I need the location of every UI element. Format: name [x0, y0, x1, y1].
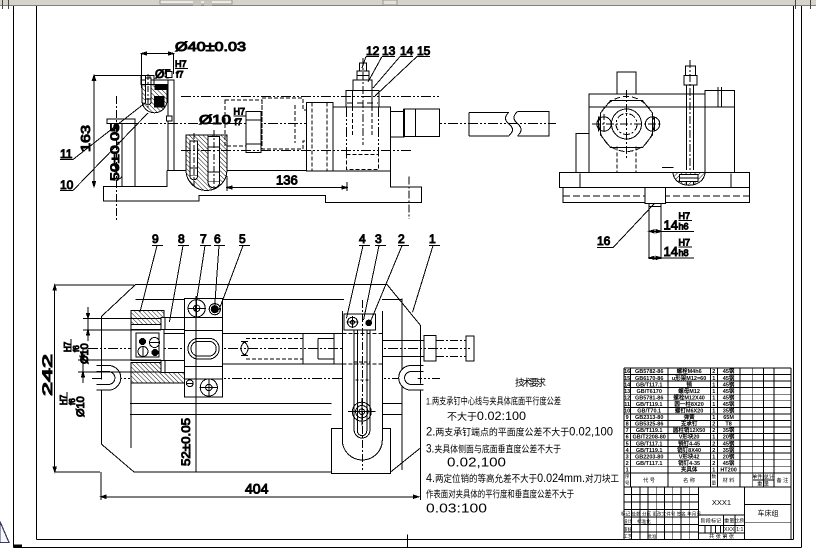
svg-text:工艺: 工艺 [623, 534, 633, 539]
svg-text:销: 销 [686, 380, 692, 388]
svg-text:重量: 重量 [724, 517, 734, 525]
svg-text:1: 1 [712, 435, 715, 441]
svg-text:GB/T117.1: GB/T117.1 [636, 461, 663, 467]
svg-text:2: 2 [712, 448, 715, 454]
svg-text:45钢: 45钢 [723, 387, 735, 395]
svg-text:V形块42: V形块42 [679, 452, 700, 460]
svg-text:14: 14 [624, 382, 631, 388]
svg-text:阶段标记: 阶段标记 [701, 517, 722, 525]
svg-text:12: 12 [624, 395, 630, 401]
svg-text:45钢: 45钢 [723, 459, 735, 467]
svg-text:1: 1 [712, 376, 715, 382]
svg-text:2: 2 [712, 441, 715, 447]
svg-text:2: 2 [398, 232, 405, 246]
svg-text:1: 1 [712, 395, 715, 401]
svg-text:1: 1 [429, 232, 436, 246]
svg-text:支承钉: 支承钉 [680, 420, 698, 428]
svg-text:GB6170-86: GB6170-86 [635, 376, 663, 382]
svg-text:销钉4-35: 销钉4-35 [678, 459, 700, 467]
svg-text:9: 9 [152, 232, 159, 246]
svg-text:136: 136 [276, 173, 298, 188]
svg-text:8: 8 [178, 232, 185, 246]
svg-text:7: 7 [200, 232, 207, 246]
svg-text:1: 1 [712, 389, 715, 395]
svg-text:45钢: 45钢 [723, 400, 735, 408]
svg-text:T8: T8 [725, 422, 731, 428]
svg-text:螺钉M6X20: 螺钉M6X20 [675, 407, 703, 415]
svg-text:H7: H7 [679, 211, 691, 221]
svg-text:3.夹具体侧面与底面垂直度公差不大于: 3.夹具体侧面与底面垂直度公差不大于 [426, 442, 561, 456]
svg-text:14: 14 [664, 244, 678, 259]
svg-text:f6: f6 [68, 398, 77, 405]
svg-text:标准化: 标准化 [637, 518, 651, 525]
svg-text:车床组: 车床组 [758, 509, 779, 518]
svg-text:名 称: 名 称 [683, 476, 695, 484]
svg-text:4.两定位销的等高允差不大于0.024mm.对刀块工: 4.两定位销的等高允差不大于0.024mm.对刀块工 [426, 471, 619, 485]
svg-text:量: 量 [711, 479, 716, 486]
svg-text:f7: f7 [235, 117, 243, 127]
svg-text:H7: H7 [679, 238, 691, 248]
svg-text:GB/T6170: GB/T6170 [637, 389, 662, 395]
svg-text:数: 数 [711, 473, 716, 480]
svg-text:圆一柱8X20: 圆一柱8X20 [674, 400, 703, 408]
svg-text:20钢: 20钢 [723, 452, 735, 460]
svg-text:3: 3 [626, 454, 629, 460]
svg-text:重 量: 重 量 [757, 480, 769, 488]
svg-text:12: 12 [366, 44, 380, 58]
svg-text:代 号: 代 号 [643, 476, 655, 484]
svg-text:14: 14 [664, 218, 678, 233]
svg-text:1: 1 [712, 382, 715, 388]
svg-text:备 注: 备 注 [776, 476, 788, 484]
svg-text:H7: H7 [234, 107, 246, 117]
svg-text:2: 2 [626, 461, 629, 467]
svg-text:V形块20: V形块20 [679, 433, 700, 441]
svg-text:16: 16 [624, 369, 630, 375]
svg-text:作表面对夹具体的平行度和垂直度公差不大于: 作表面对夹具体的平行度和垂直度公差不大于 [426, 489, 574, 501]
svg-text:1: 1 [712, 454, 715, 460]
svg-text:GB/T117.1: GB/T117.1 [636, 441, 663, 447]
svg-text:5: 5 [239, 232, 246, 246]
svg-text:13: 13 [624, 389, 630, 395]
svg-text:1.两支承钉中心线与夹具体底面平行度公差: 1.两支承钉中心线与夹具体底面平行度公差 [426, 396, 561, 408]
svg-text:h8: h8 [679, 248, 689, 258]
svg-text:45钢: 45钢 [723, 380, 735, 388]
svg-text:销钉4-45: 销钉4-45 [678, 439, 700, 447]
svg-text:单件|总计: 单件|总计 [752, 472, 774, 480]
svg-text:材 料: 材 料 [723, 476, 735, 484]
svg-text:1:1: 1:1 [736, 527, 743, 533]
svg-text:序: 序 [625, 473, 630, 480]
svg-text:10: 10 [60, 178, 74, 192]
svg-text:20钢: 20钢 [723, 433, 735, 441]
svg-text:15: 15 [624, 376, 630, 382]
svg-text:弹簧: 弹簧 [684, 413, 696, 421]
svg-text:GB/T70.1: GB/T70.1 [637, 409, 661, 415]
svg-text:7: 7 [626, 428, 629, 434]
svg-text:螺栓M4h6: 螺栓M4h6 [677, 367, 702, 375]
svg-text:不大于0.02:100: 不大于0.02:100 [447, 409, 526, 423]
svg-text:GB2203-80: GB2203-80 [635, 454, 663, 460]
svg-text:10: 10 [624, 409, 630, 415]
svg-text:比例: 比例 [735, 517, 745, 525]
svg-text:u形架M12=60: u形架M12=60 [672, 374, 706, 382]
svg-text:2.两支承钉端点的平面度公差不大于0.02,100: 2.两支承钉端点的平面度公差不大于0.02,100 [426, 425, 613, 439]
svg-text:1: 1 [712, 402, 715, 408]
svg-text:GB/T2208-80: GB/T2208-80 [633, 435, 666, 441]
svg-text:45钢: 45钢 [723, 393, 735, 401]
svg-text:35钢: 35钢 [723, 426, 735, 434]
svg-text:技术要求: 技术要求 [515, 377, 546, 389]
svg-text:GB5782-86: GB5782-86 [635, 369, 663, 375]
svg-text:螺栓M12X40: 螺栓M12X40 [673, 393, 705, 401]
svg-text:9: 9 [626, 415, 629, 421]
svg-text:2: 2 [712, 428, 715, 434]
svg-text:45钢: 45钢 [723, 367, 735, 375]
svg-text:共 张 第 张: 共 张 第 张 [709, 532, 735, 540]
svg-text:11: 11 [624, 402, 630, 408]
svg-text:242: 242 [39, 354, 55, 396]
svg-text:52±0.05: 52±0.05 [179, 418, 193, 466]
svg-text:f7: f7 [176, 70, 184, 80]
svg-text:2: 2 [712, 461, 715, 467]
svg-text:65M: 65M [723, 415, 734, 421]
svg-text:45钢: 45钢 [723, 439, 735, 447]
svg-text:2: 2 [712, 422, 715, 428]
svg-text:163: 163 [78, 125, 93, 152]
svg-text:GB/T119.1: GB/T119.1 [636, 402, 663, 408]
svg-text:1: 1 [712, 415, 715, 421]
svg-text:XXX: XXX [724, 527, 735, 533]
svg-text:6: 6 [214, 232, 221, 246]
svg-text:Ø10: Ø10 [199, 112, 231, 127]
svg-text:H7: H7 [175, 59, 187, 69]
svg-text:GB2313-80: GB2313-80 [635, 415, 663, 421]
svg-text:2: 2 [712, 369, 715, 375]
svg-text:6: 6 [626, 435, 629, 441]
svg-text:GB5781-86: GB5781-86 [635, 395, 663, 401]
svg-text:8: 8 [626, 422, 629, 428]
svg-text:GB/T119.1: GB/T119.1 [636, 428, 663, 434]
svg-text:螺母M12: 螺母M12 [678, 387, 700, 395]
svg-text:圆柱销12X50: 圆柱销12X50 [673, 426, 705, 434]
svg-text:f6: f6 [72, 345, 81, 352]
svg-text:13: 13 [382, 44, 396, 58]
svg-text:404: 404 [245, 481, 269, 497]
svg-text:h6: h6 [679, 222, 689, 232]
svg-text:35钢: 35钢 [723, 446, 735, 454]
svg-text:16: 16 [597, 234, 611, 248]
svg-text:审核: 审核 [623, 526, 633, 533]
svg-text:11: 11 [60, 147, 73, 161]
svg-text:XXX1: XXX1 [712, 498, 731, 507]
svg-text:Ø40±0.03: Ø40±0.03 [175, 39, 246, 54]
svg-text:3: 3 [375, 232, 382, 246]
svg-text:GB/T117.1: GB/T117.1 [636, 382, 663, 388]
svg-text:4: 4 [359, 232, 366, 246]
svg-text:35钢: 35钢 [723, 407, 735, 415]
svg-text:5: 5 [626, 441, 629, 447]
svg-text:1: 1 [712, 467, 715, 473]
svg-text:夹具体: 夹具体 [681, 465, 698, 473]
svg-text:0.02,100: 0.02,100 [447, 456, 506, 470]
svg-text:设计: 设计 [623, 518, 633, 525]
svg-text:15: 15 [417, 44, 431, 58]
svg-text:GB5325-86: GB5325-86 [635, 422, 663, 428]
svg-text:HT200: HT200 [720, 467, 737, 473]
svg-text:45钢: 45钢 [723, 374, 735, 382]
svg-text:14: 14 [400, 44, 414, 58]
svg-text:GB/T119.1: GB/T119.1 [636, 448, 663, 454]
svg-text:1: 1 [626, 467, 629, 473]
svg-text:批准: 批准 [647, 533, 657, 540]
svg-text:1: 1 [712, 409, 715, 415]
svg-text:销钉8X40: 销钉8X40 [677, 446, 701, 454]
svg-text:0.03:100: 0.03:100 [426, 502, 487, 516]
svg-text:标记 处数 分区 更改文件号 签名 年月日: 标记 处数 分区 更改文件号 签名 年月日 [621, 511, 701, 518]
